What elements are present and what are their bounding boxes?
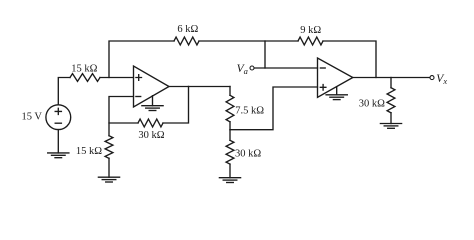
voltage source minus mark	[55, 122, 61, 124]
node Va open terminal circle	[250, 66, 254, 70]
ground below R2	[98, 176, 119, 178]
voltage source VS 15V circle	[46, 105, 71, 130]
wire top rail right corner down to Vx rail	[323, 41, 376, 78]
wire U2 output to Vx terminal	[353, 77, 430, 79]
op-amp U2 minus input mark	[320, 67, 325, 69]
svg-text:7.5 kΩ: 7.5 kΩ	[235, 106, 264, 117]
resistor R3 30k feedback zigzag	[138, 119, 163, 127]
resistor R1 15k zigzag	[70, 74, 100, 82]
svg-text:Vx: Vx	[436, 73, 447, 86]
wire feedback right lead up to U1 output	[163, 86, 189, 123]
svg-text:15 kΩ: 15 kΩ	[71, 64, 97, 75]
svg-text:6 kΩ: 6 kΩ	[177, 24, 198, 35]
wire R1 to op-amp U1 plus input	[100, 77, 134, 79]
svg-text:30 kΩ: 30 kΩ	[359, 98, 385, 109]
resistor R2 15k vertical zigzag	[105, 136, 113, 159]
wire source bottom to ground	[57, 130, 59, 153]
wire from source top to R1	[58, 78, 70, 105]
voltage source plus mark	[55, 108, 61, 114]
wire junction drop from top rail to Va node wire	[264, 41, 266, 68]
op-amp U2 triangle	[318, 58, 353, 97]
op-amp U2 plus input mark	[320, 85, 326, 91]
wire top rail middle segment	[199, 40, 298, 42]
svg-text:30 kΩ: 30 kΩ	[235, 149, 261, 160]
svg-text:30 kΩ: 30 kΩ	[138, 130, 164, 141]
wire U2 ground stem	[336, 87, 338, 95]
wire feedback left lead	[109, 122, 138, 124]
node Vx open terminal circle	[430, 76, 434, 80]
resistor R 9k zigzag	[298, 37, 323, 45]
wire junction to U2 plus input	[230, 87, 318, 130]
resistor R 6k zigzag	[174, 37, 199, 45]
svg-text:15 V: 15 V	[21, 112, 42, 123]
resistor R4 7.5k vertical zigzag	[229, 87, 231, 96]
svg-text:Va: Va	[237, 63, 248, 76]
ground below R5	[219, 177, 240, 179]
wire R6 bottom to ground	[390, 113, 392, 124]
wire R5 bottom to ground	[229, 164, 231, 178]
op-amp U1 minus input mark	[136, 96, 141, 98]
resistor R5 30k mid vertical zigzag	[229, 130, 231, 141]
ground below source	[48, 152, 69, 154]
wire top rail left segment	[109, 41, 174, 78]
op-amp U1 plus input mark	[136, 75, 142, 81]
wire U1 minus input	[109, 97, 134, 136]
ground below U2	[326, 94, 347, 96]
wire R2 bottom to ground	[108, 158, 110, 177]
wire U1 output to 7.5k top	[169, 86, 230, 88]
wire 7.5k bottom junction	[229, 122, 231, 130]
svg-text:9 kΩ: 9 kΩ	[300, 25, 321, 36]
resistor R6 30k right vertical zigzag	[390, 78, 392, 88]
ground below R6	[380, 123, 401, 125]
wire Va to U2 minus input	[254, 67, 317, 69]
op-amp U1 triangle	[134, 66, 170, 107]
ground below U1	[142, 105, 163, 107]
wire U1 ground stem	[152, 96, 154, 106]
svg-text:15 kΩ: 15 kΩ	[76, 146, 102, 157]
